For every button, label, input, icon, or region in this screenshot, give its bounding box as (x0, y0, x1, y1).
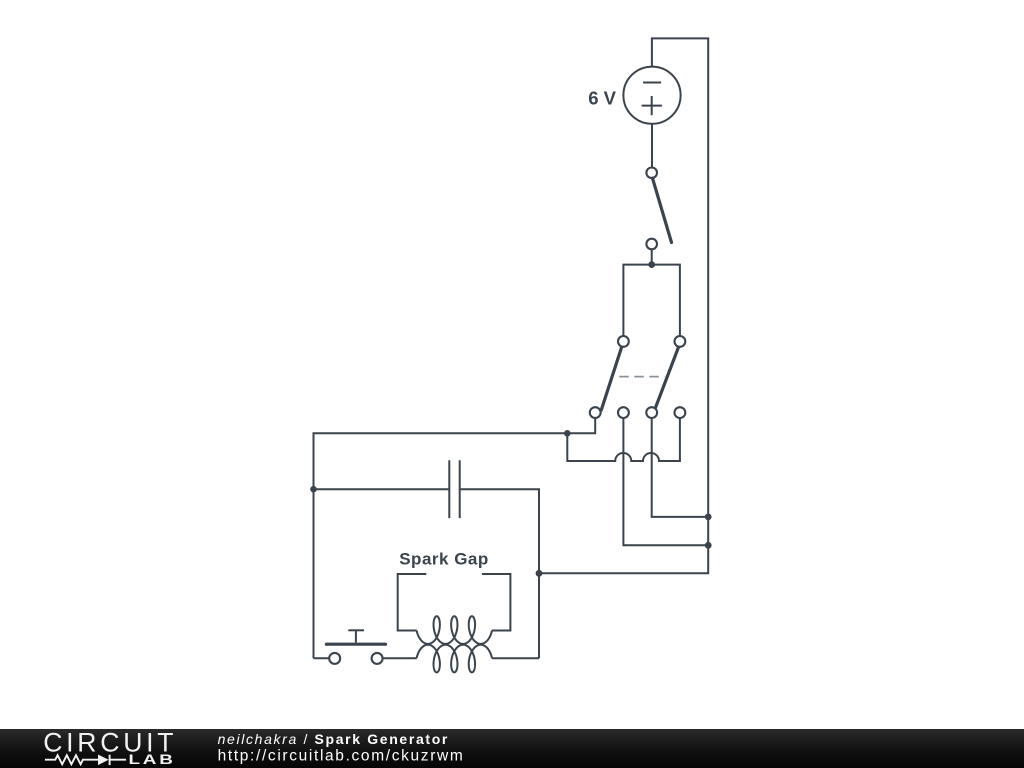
svg-text:neilchakra / Spark Generator: neilchakra / Spark Generator (218, 731, 449, 747)
svg-text:Spark Gap: Spark Gap (399, 549, 489, 568)
svg-text:LAB: LAB (129, 752, 176, 767)
svg-text:http://circuitlab.com/ckuzrwm: http://circuitlab.com/ckuzrwm (218, 748, 465, 765)
svg-text:6 V: 6 V (588, 87, 616, 108)
